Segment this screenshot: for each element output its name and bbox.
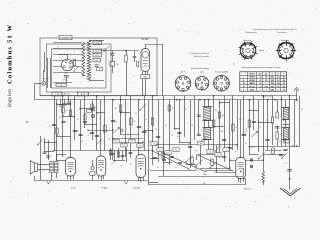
junction j14 <box>249 146 250 147</box>
resistor R6 <box>168 105 170 111</box>
tube V2 <box>141 49 150 72</box>
svg-text:g1: g1 <box>259 73 261 75</box>
wire h30 <box>249 110 258 112</box>
svg-text:Röhre: Röhre <box>249 72 254 75</box>
wire v15 <box>112 100 114 160</box>
resistor R1b <box>73 60 75 66</box>
junction j19 <box>112 138 113 139</box>
wire v-216 <box>216 145 218 172</box>
chassis mark 2 <box>124 181 128 184</box>
svg-text:g2: g2 <box>265 73 267 75</box>
junction j28 <box>263 159 264 160</box>
resistor R9 <box>271 117 273 123</box>
tube V1 circle <box>62 59 74 71</box>
wire h33 <box>249 146 263 148</box>
speaker LS <box>30 161 34 174</box>
wire v50 <box>285 100 287 108</box>
junction x249.3 <box>249 99 251 101</box>
transformer T5 coil b <box>283 128 288 140</box>
wire v20 <box>144 96 146 151</box>
junction j22 <box>189 142 190 143</box>
junction b1 x263.2 <box>263 95 264 96</box>
svg-text:Sockelschaltungen: Sockelschaltungen <box>191 67 210 70</box>
capacitor C18 <box>266 138 270 140</box>
wire v17 <box>125 100 127 157</box>
svg-text:3k: 3k <box>99 119 101 121</box>
junction j10 <box>219 102 220 103</box>
svg-text:Drucktasten: Drucktasten <box>277 31 287 34</box>
wire h24 <box>80 108 92 110</box>
svg-text:1M4: 1M4 <box>64 73 68 75</box>
junction j29 <box>215 171 216 172</box>
part box 9 <box>207 150 213 154</box>
shield box outer <box>40 38 157 96</box>
capacitor C8 <box>111 119 115 121</box>
wire h12 <box>179 142 190 144</box>
svg-text:=: = <box>266 51 267 53</box>
wire v1 <box>40 136 42 180</box>
svg-text:-2: -2 <box>259 80 261 82</box>
wire h34 <box>97 112 105 114</box>
junction j4 <box>62 115 63 116</box>
junction j20 <box>142 142 143 143</box>
bottom line L1 <box>158 176 244 178</box>
capacitor C20 <box>283 148 287 150</box>
part box 2 <box>121 143 127 147</box>
resistor R17 <box>248 120 250 127</box>
wire v118 <box>118 148 120 158</box>
wire v39 <box>237 100 239 150</box>
wire v9 <box>80 100 82 151</box>
box label V2 <box>141 75 150 79</box>
wire inner drops <box>47 58 49 88</box>
bus B1 <box>40 95 297 97</box>
svg-text:C 4/1: C 4/1 <box>95 43 99 45</box>
part box 10 <box>215 153 221 157</box>
wire L2 top <box>89 40 104 42</box>
resistor R27 zigzag <box>263 155 265 171</box>
capacitor C30 <box>279 153 283 155</box>
svg-text:UCL11: UCL11 <box>249 86 255 88</box>
wire v29 <box>190 100 192 143</box>
wire v37 <box>229 100 231 168</box>
capacitor C4 <box>52 123 56 125</box>
svg-text:50: 50 <box>130 164 132 166</box>
tube V4 <box>96 156 106 176</box>
svg-text:W 32: W 32 <box>95 55 99 57</box>
switch S5 <box>259 153 265 159</box>
wire h5 <box>120 134 139 136</box>
wire jack-up <box>43 70 45 81</box>
svg-text:75: 75 <box>265 77 267 79</box>
capacitor C21 <box>287 169 292 171</box>
svg-text:UCH11: UCH11 <box>249 77 255 79</box>
svg-text:75: 75 <box>265 80 267 82</box>
switch S11 <box>38 140 43 145</box>
coil L2 <box>87 40 91 80</box>
capacitor C28 <box>178 161 182 163</box>
wire L1 taps <box>53 42 82 44</box>
wire v51 <box>289 96 291 190</box>
switch S8 <box>196 160 203 167</box>
svg-text:102: 102 <box>108 139 111 141</box>
wire step s1 <box>150 166 233 171</box>
svg-text:30: 30 <box>116 64 118 66</box>
junction j31 <box>296 145 297 146</box>
wire v34 <box>213 96 215 150</box>
capacitor C23 <box>90 131 94 133</box>
svg-text:50: 50 <box>49 126 51 128</box>
wire h18 <box>150 158 158 160</box>
svg-text:47: 47 <box>99 69 101 71</box>
resistor R13 <box>130 118 132 125</box>
resistor R14 <box>151 118 153 125</box>
shield box mid <box>47 44 112 92</box>
svg-text:gelb: gelb <box>200 72 203 74</box>
wire v16 <box>120 96 122 135</box>
switch S3 <box>200 137 206 143</box>
coil L1 <box>82 42 85 76</box>
svg-text:30: 30 <box>157 167 159 169</box>
capacitor C2b <box>133 55 137 57</box>
capacitor C14 <box>222 138 226 140</box>
wire h26 <box>85 124 97 126</box>
svg-text:50: 50 <box>61 137 63 139</box>
resistor R15 <box>56 128 58 134</box>
svg-text:0,5: 0,5 <box>175 167 177 169</box>
wire h1 <box>175 128 180 130</box>
wire v-190 <box>190 143 192 168</box>
svg-text:0,3: 0,3 <box>235 127 237 129</box>
wire v36 <box>224 96 226 162</box>
wire v35 <box>219 100 221 158</box>
svg-text:104: 104 <box>139 146 142 148</box>
svg-text:0,3: 0,3 <box>81 141 83 143</box>
svg-text:5k: 5k <box>269 154 271 156</box>
resistor R8 <box>232 124 234 131</box>
svg-text:8µ: 8µ <box>175 150 177 152</box>
wire G1 left <box>34 176 36 180</box>
output transformer T4 coil a <box>50 162 53 173</box>
wire h17 <box>263 154 285 156</box>
capacitor C16 <box>242 133 246 135</box>
wire v10 <box>84 96 86 128</box>
wire v3 <box>48 140 50 160</box>
capacitor C32 <box>121 154 125 156</box>
box label L2a <box>93 41 102 45</box>
svg-text:W 31: W 31 <box>95 51 99 53</box>
junction j32 <box>292 145 293 146</box>
part box 11 <box>223 148 229 152</box>
wire T2 bottom <box>208 139 210 150</box>
wire v44 <box>258 100 260 152</box>
cap stub 1 <box>60 100 62 105</box>
svg-text:0,2: 0,2 <box>73 117 75 119</box>
wire v33 <box>208 100 210 107</box>
svg-text:51k 0,1µ: 51k 0,1µ <box>64 94 70 96</box>
svg-text:Stellung Kurzwelle: Stellung Kurzwelle <box>193 55 209 58</box>
junction x204.8 <box>204 99 206 101</box>
trimmer C3 <box>110 62 115 67</box>
svg-text:P 70: P 70 <box>70 187 76 190</box>
capacitor C33 <box>129 151 133 153</box>
wire v43 <box>253 96 255 130</box>
junction x120.6 <box>120 99 122 101</box>
svg-text:182: 182 <box>200 143 203 145</box>
ground electrode E <box>280 188 301 196</box>
wire V2 down <box>145 79 147 96</box>
capacitor C34 <box>62 120 66 122</box>
wire V2 plate <box>145 44 147 49</box>
svg-text:0,2: 0,2 <box>217 155 219 157</box>
chassis mark 1 <box>47 181 51 184</box>
junction j26 <box>152 150 153 151</box>
svg-text:W 18: W 18 <box>81 94 85 96</box>
svg-text:2n: 2n <box>225 165 227 167</box>
svg-text:HF W2: HF W2 <box>141 39 149 41</box>
T2 link <box>204 120 206 127</box>
junction j13 <box>213 126 214 127</box>
wire v46 <box>267 100 269 150</box>
resistor R18 <box>162 153 164 159</box>
box label L2d <box>93 58 101 62</box>
resistor R12 <box>104 125 106 132</box>
capacitor C22 <box>43 151 47 153</box>
wire h36 <box>144 130 153 132</box>
svg-text:UCH11: UCH11 <box>249 80 255 82</box>
wire v126 <box>126 148 128 162</box>
voltage table <box>240 72 287 91</box>
antenna A <box>296 89 298 100</box>
wire h10 <box>230 160 263 162</box>
svg-text:1n: 1n <box>225 150 227 152</box>
svg-text:Ersatzschaltbild: Ersatzschaltbild <box>215 71 228 74</box>
capacitor C13 <box>197 114 201 116</box>
svg-text:0,1: 0,1 <box>159 150 161 152</box>
capacitor C26 <box>162 158 166 160</box>
switch S4 <box>215 146 221 152</box>
svg-text:0,1: 0,1 <box>165 125 167 127</box>
tube V5 <box>136 155 146 178</box>
svg-text:5k: 5k <box>155 129 157 131</box>
capacitor CL2 <box>95 64 99 66</box>
junction x138.9 <box>138 99 140 101</box>
svg-text:0,5: 0,5 <box>245 143 247 145</box>
wire v114 <box>114 150 116 162</box>
wire v18 <box>130 96 132 150</box>
label netz <box>245 127 248 136</box>
wire h11 <box>249 154 258 156</box>
part box 4 <box>137 144 143 148</box>
junction x179.7 <box>179 99 181 101</box>
svg-text:Unterseite: Unterseite <box>281 39 290 42</box>
wire v122 <box>122 150 124 160</box>
junction b1 x289.6 <box>289 95 290 96</box>
trimmer circles <box>91 107 94 110</box>
svg-text:C 4/7: C 4/7 <box>63 38 69 40</box>
cap stub 3 <box>68 96 70 102</box>
capacitor C12 <box>177 131 181 133</box>
capacitor C25 <box>153 156 157 158</box>
capacitor C7 <box>95 134 99 136</box>
junction j15 <box>96 112 97 113</box>
wire v27 <box>179 100 181 143</box>
wire v14 <box>104 96 106 151</box>
junction x267.6 <box>267 99 269 101</box>
svg-text:17 M2: 17 M2 <box>100 187 107 190</box>
svg-text:50: 50 <box>283 80 285 82</box>
stray mark <box>26 121 28 123</box>
svg-text:1k: 1k <box>172 108 174 110</box>
tube V6 EM <box>236 158 246 179</box>
junction j5 <box>84 123 85 124</box>
svg-text:50: 50 <box>167 153 169 155</box>
svg-text:470: 470 <box>63 80 66 82</box>
svg-text:20: 20 <box>127 134 129 136</box>
wire h28 <box>45 142 58 144</box>
svg-text:20: 20 <box>259 127 261 129</box>
svg-text:W48: W48 <box>144 77 148 79</box>
svg-text:4n: 4n <box>177 136 179 138</box>
capacitor C19 <box>275 126 280 128</box>
wire v92 <box>92 160 94 166</box>
svg-text:0,1: 0,1 <box>123 145 125 147</box>
IF transformer T2 coil b <box>204 128 211 140</box>
svg-text:EM 1/2: EM 1/2 <box>243 187 252 190</box>
label box CU7 <box>59 35 72 39</box>
bus B2 <box>35 99 297 101</box>
capacitor C10 <box>142 130 146 132</box>
title Ingelen Columbus 51 W <box>7 24 14 107</box>
switch S1 <box>104 46 110 52</box>
wire h3 <box>115 142 143 144</box>
svg-text:—: — <box>265 90 267 92</box>
wire h14 <box>113 160 125 162</box>
resistor R21 <box>272 148 274 154</box>
switch S9 <box>210 162 217 169</box>
wire v12 <box>96 96 98 151</box>
box label W18 <box>78 92 89 96</box>
svg-text:986: 986 <box>204 174 207 176</box>
wire v21 <box>148 100 150 182</box>
IF transformer T2 coil a <box>204 107 211 120</box>
part box 6 <box>165 151 171 155</box>
wire h19 <box>163 162 172 164</box>
resistor R3 <box>119 105 121 112</box>
switch S7 <box>186 156 193 163</box>
wire v7 <box>70 100 72 158</box>
wire h29 <box>220 102 230 104</box>
svg-text:5n: 5n <box>141 128 143 130</box>
box label T5 <box>284 140 290 143</box>
box label L2b <box>93 49 102 53</box>
junction j30 <box>229 167 230 168</box>
svg-text:210: 210 <box>271 83 274 85</box>
junction j16 <box>120 112 121 113</box>
wire v23 <box>158 100 160 162</box>
svg-text:Netzanschl.: Netzanschl. <box>245 127 248 136</box>
wire L2 up <box>245 179 247 186</box>
junction j9 <box>44 141 45 142</box>
svg-text:50: 50 <box>60 85 62 87</box>
wire h21 <box>200 168 230 170</box>
pins V2 <box>142 72 144 75</box>
svg-text:1k: 1k <box>59 58 61 60</box>
resistor R1 <box>56 83 67 86</box>
wire v40 <box>240 100 242 158</box>
svg-text:50: 50 <box>283 77 285 79</box>
svg-text:0,1: 0,1 <box>115 122 117 124</box>
part box 7 <box>173 148 179 152</box>
ticks <box>43 78 45 80</box>
box label L2c <box>93 53 102 57</box>
junction b1 x152.6 <box>152 95 153 96</box>
switch S6 <box>96 140 102 146</box>
junction j27 <box>229 159 230 160</box>
resistor R22 <box>109 150 111 155</box>
capacitor C9 <box>137 125 141 127</box>
wire w-r1 <box>53 82 72 84</box>
wire v30 <box>194 96 196 140</box>
wire h20 <box>186 164 196 166</box>
wire v26 <box>174 96 176 129</box>
wire v2 <box>44 138 46 152</box>
box label L2e <box>97 68 103 71</box>
cathode circle V4 <box>91 166 94 169</box>
svg-text:0,1: 0,1 <box>65 110 67 112</box>
tube V3 P70 <box>66 158 76 177</box>
part box 8 <box>198 141 204 145</box>
socket c <box>214 75 230 91</box>
svg-text:Wellenbereich:: Wellenbereich: <box>245 32 257 34</box>
wire h-124 <box>283 124 290 126</box>
svg-text:Columbus 51 W: Columbus 51 W <box>7 24 14 84</box>
svg-text:2,1: 2,1 <box>277 80 280 82</box>
resistor R25 <box>84 114 86 120</box>
wire h7 <box>54 150 153 152</box>
resistor R2 <box>126 51 128 55</box>
junction j2 <box>70 103 71 104</box>
wire v-r2b <box>272 123 274 145</box>
svg-text:-8: -8 <box>259 83 261 85</box>
wire h4 <box>88 130 113 132</box>
wire h22 <box>216 172 236 174</box>
wire v130 <box>130 150 132 158</box>
wire v49 <box>281 96 283 146</box>
svg-text:a: a <box>58 47 59 49</box>
part box 3 <box>129 139 135 143</box>
capacitor C27 <box>170 155 174 157</box>
cap stub 2 <box>64 100 66 104</box>
junction j21 <box>174 128 175 129</box>
capacitor C6 <box>83 120 87 122</box>
svg-text:Schaltbild gezeichnet in: Schaltbild gezeichnet in <box>189 52 209 55</box>
svg-text:50k: 50k <box>94 107 97 109</box>
junction j8 <box>56 135 57 136</box>
antenna jack J1 <box>42 81 46 85</box>
svg-text:Spannungsangaben (gemessen geg: Spannungsangaben (gemessen gegen Chassis… <box>242 67 281 69</box>
svg-text:25: 25 <box>209 152 211 154</box>
wire spk a <box>38 164 50 166</box>
svg-text:UBF11: UBF11 <box>249 83 255 85</box>
wire h16 <box>265 150 282 152</box>
svg-text:25: 25 <box>301 109 303 111</box>
capacitor C2 <box>110 53 114 55</box>
wire h25 <box>63 116 75 118</box>
junction j25 <box>53 150 54 151</box>
capacitor C29 <box>222 155 226 157</box>
part box 5 <box>157 148 163 152</box>
